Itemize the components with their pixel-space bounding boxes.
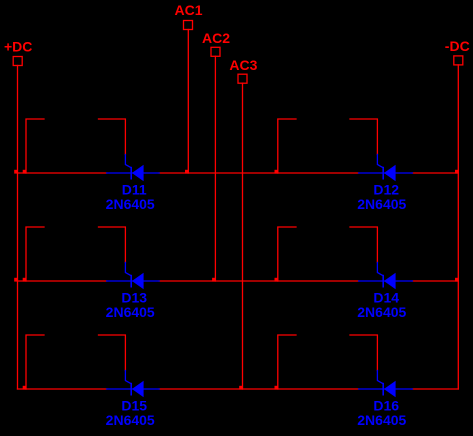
svg-text:D15: D15 — [121, 397, 147, 413]
wire gate return stub D16 — [278, 335, 296, 389]
wire bus row 2 left segment — [18, 280, 107, 282]
junction row 1 gate stub right — [275, 170, 279, 174]
wire bus row 1 right segment — [412, 172, 458, 174]
svg-text:D14: D14 — [373, 289, 399, 305]
junction row 1 -DC rail — [455, 170, 459, 174]
svg-text:2N6405: 2N6405 — [106, 304, 155, 320]
junction row 1 +DC rail — [14, 170, 18, 174]
junction row 2 gate stub right — [275, 278, 279, 282]
wire bus row 2 right segment — [412, 280, 458, 282]
svg-text:2N6405: 2N6405 — [357, 412, 406, 428]
thyristor D11 — [107, 155, 160, 182]
svg-text:2N6405: 2N6405 — [357, 196, 406, 212]
wire bus row 2 middle segment — [159, 280, 359, 282]
junction row 2 AC tap — [212, 278, 216, 282]
junction row 1 AC tap — [185, 170, 189, 174]
wire gate lead D16 — [350, 335, 377, 371]
svg-text:AC2: AC2 — [202, 30, 230, 46]
junction row 2 -DC rail — [455, 278, 459, 282]
junction row 2 +DC rail — [14, 278, 18, 282]
terminal AC1 — [184, 21, 193, 30]
svg-text:D16: D16 — [373, 397, 399, 413]
junction row 2 gate stub left — [23, 278, 27, 282]
wire bus row 1 left segment — [18, 172, 107, 174]
junction row 3 gate stub left — [23, 386, 27, 390]
wire -DC rail — [457, 65, 459, 389]
wire gate lead D15 — [99, 335, 126, 371]
svg-text:-DC: -DC — [445, 38, 470, 54]
thyristor D15 — [107, 371, 160, 398]
svg-text:2N6405: 2N6405 — [106, 412, 155, 428]
wire gate lead D13 — [99, 227, 126, 263]
terminal AC2 — [211, 47, 220, 56]
wire bus row 1 middle segment — [159, 172, 359, 174]
svg-text:2N6405: 2N6405 — [106, 196, 155, 212]
wire gate return stub D14 — [278, 227, 296, 281]
svg-text:D13: D13 — [121, 289, 147, 305]
wire bus row 3 middle segment — [159, 388, 359, 390]
junction row 1 gate stub left — [23, 170, 27, 174]
wire bus row 3 right segment — [412, 388, 458, 390]
wire gate lead D14 — [350, 227, 377, 263]
svg-text:D12: D12 — [373, 181, 399, 197]
thyristor D14 — [359, 263, 413, 290]
terminal +DC — [13, 57, 22, 66]
svg-text:D11: D11 — [122, 181, 147, 197]
svg-text:2N6405: 2N6405 — [357, 304, 406, 320]
wire gate return stub D12 — [278, 119, 296, 173]
terminal -DC — [454, 56, 463, 65]
junction row 3 gate stub right — [275, 386, 279, 390]
svg-text:+DC: +DC — [4, 38, 32, 54]
wire AC1 feeder — [187, 30, 189, 174]
wire AC3 feeder — [242, 83, 244, 389]
wire gate return stub D11 — [26, 119, 44, 173]
thyristor D16 — [359, 371, 413, 398]
junction row 3 AC tap — [239, 386, 243, 390]
wire gate return stub D13 — [26, 227, 44, 281]
svg-text:AC3: AC3 — [229, 57, 257, 73]
wire bus row 3 left segment — [18, 388, 107, 390]
wire gate lead D11 — [99, 119, 126, 155]
wire gate return stub D15 — [26, 335, 44, 389]
wire +DC rail — [17, 66, 19, 390]
thyristor D12 — [359, 155, 413, 182]
wire AC2 feeder — [214, 56, 216, 281]
terminal AC3 — [238, 74, 247, 83]
wire gate lead D12 — [350, 119, 377, 155]
svg-text:AC1: AC1 — [175, 2, 203, 18]
thyristor D13 — [107, 263, 160, 290]
